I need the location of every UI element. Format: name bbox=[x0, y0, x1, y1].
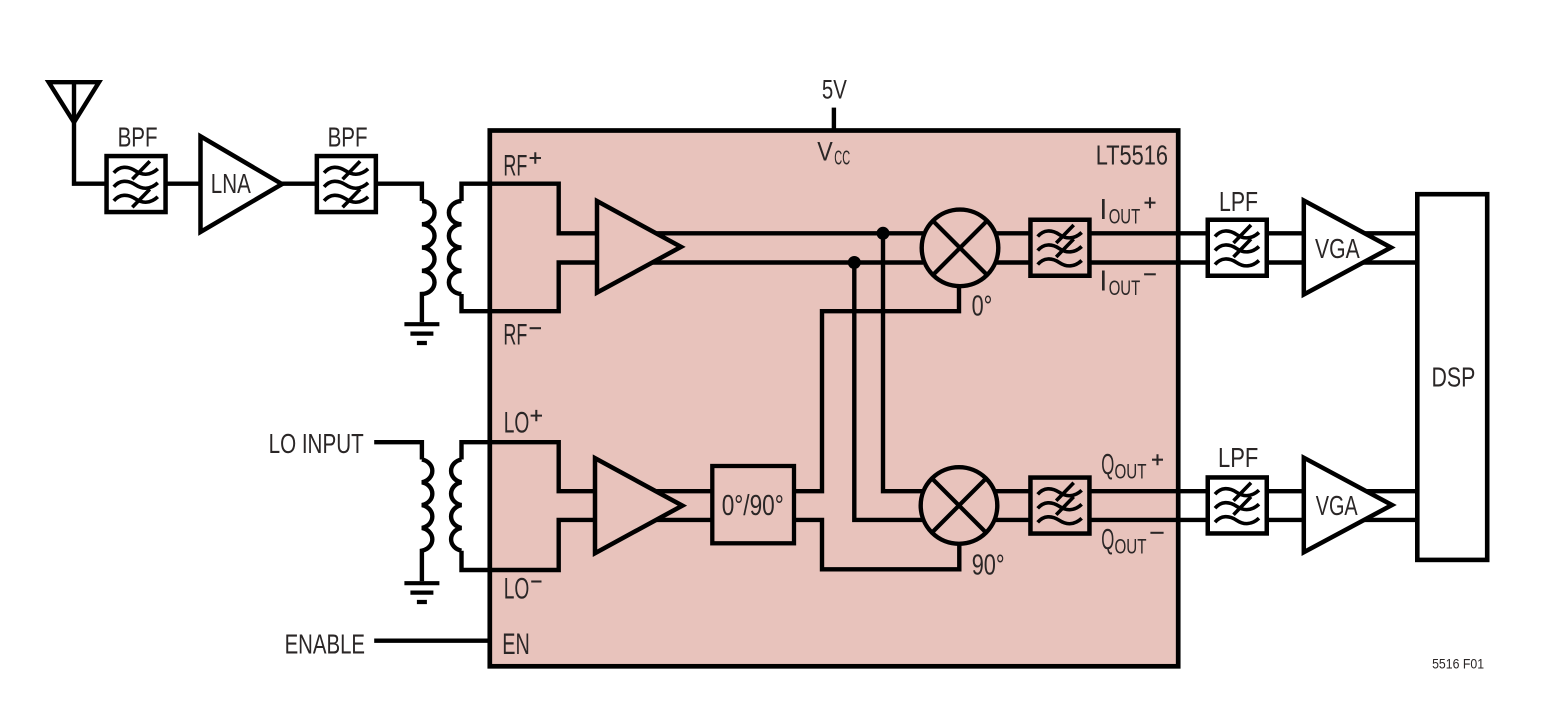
svg-text:LT5516: LT5516 bbox=[1096, 140, 1168, 171]
svg-text:VGA: VGA bbox=[1315, 233, 1360, 264]
svg-text:OUT: OUT bbox=[1109, 205, 1141, 228]
svg-text:Q: Q bbox=[1101, 449, 1114, 481]
svg-text:ENABLE: ENABLE bbox=[285, 629, 365, 660]
svg-text:CC: CC bbox=[834, 146, 850, 169]
svg-text:LO INPUT: LO INPUT bbox=[269, 428, 364, 459]
svg-text:LO: LO bbox=[504, 406, 530, 439]
svg-text:I: I bbox=[1099, 194, 1107, 226]
svg-text:VGA: VGA bbox=[1316, 490, 1358, 521]
svg-text:BPF: BPF bbox=[118, 122, 158, 153]
svg-text:90°: 90° bbox=[972, 550, 1005, 582]
svg-text:OUT: OUT bbox=[1109, 277, 1141, 300]
svg-text:I: I bbox=[1099, 266, 1107, 298]
svg-text:5516 F01: 5516 F01 bbox=[1432, 657, 1484, 672]
svg-text:BPF: BPF bbox=[328, 122, 368, 153]
svg-text:LO: LO bbox=[504, 573, 530, 606]
svg-text:OUT: OUT bbox=[1115, 461, 1147, 484]
svg-text:LNA: LNA bbox=[211, 168, 251, 199]
svg-text:LPF: LPF bbox=[1218, 442, 1258, 473]
svg-text:RF: RF bbox=[503, 319, 527, 352]
svg-text:V: V bbox=[817, 137, 833, 167]
svg-text:5V: 5V bbox=[822, 75, 847, 105]
svg-text:EN: EN bbox=[502, 628, 530, 661]
svg-text:0°: 0° bbox=[972, 291, 993, 323]
svg-text:RF: RF bbox=[503, 149, 527, 182]
svg-text:Q: Q bbox=[1101, 524, 1114, 556]
svg-text:LPF: LPF bbox=[1219, 186, 1258, 217]
svg-text:OUT: OUT bbox=[1115, 536, 1147, 559]
svg-text:DSP: DSP bbox=[1432, 362, 1476, 393]
svg-text:0°/90°: 0°/90° bbox=[722, 490, 784, 522]
